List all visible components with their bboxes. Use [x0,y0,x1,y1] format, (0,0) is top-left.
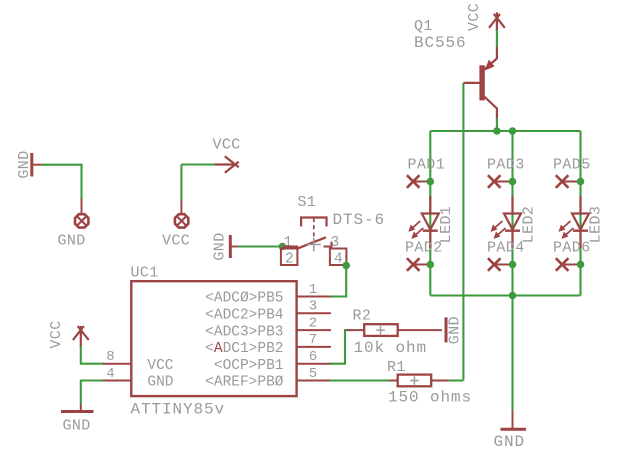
svg-text:2: 2 [285,252,294,268]
junction LED2 rail bottom [509,292,517,300]
wire VCC to emitter [496,30,498,48]
junction PAD5 [577,178,585,186]
svg-text:VCC: VCC [147,358,173,374]
IC left pin 4 (GND) [103,366,174,391]
wire R1 to base net [449,379,463,381]
junction collector at top bus [493,127,501,135]
svg-text:GND: GND [212,232,229,260]
wire [42,165,82,200]
wire LED2 rail [511,131,513,296]
ground flag at R2 [446,316,464,344]
wire pin 5 to R1 [330,379,391,381]
transistor Q1 BC556 [463,47,497,119]
svg-text:4: 4 [334,252,343,268]
svg-text:GND: GND [58,233,86,250]
pad GND (wirepad) [58,199,89,250]
junction PAD4 [509,261,517,269]
switch S1 DTS-6 [281,194,385,268]
svg-text:BC556: BC556 [414,34,467,52]
wire LED3 rail [579,131,581,296]
svg-text:<ADCØ>PB5: <ADCØ>PB5 [205,291,283,307]
svg-text:3: 3 [309,299,317,315]
svg-text:DTS-6: DTS-6 [333,211,386,229]
junction PAD6 [577,261,585,269]
ground flag top-left [16,150,43,178]
svg-text:PAD3: PAD3 [487,157,525,174]
diode LED1 [408,196,455,248]
wire pin 6 to R2 [330,330,349,364]
wire collector down [496,118,498,131]
svg-text:PAD2: PAD2 [405,240,443,257]
IC pin 3 PB4 [205,299,331,324]
pad PAD1 [407,157,445,188]
pad PAD6 [553,240,591,271]
svg-text:5: 5 [309,366,317,382]
pad PAD3 [487,157,525,188]
ground flag bottom [494,411,527,452]
supply flag VCC top-center [213,137,241,173]
svg-text:UC1: UC1 [131,265,159,282]
supply flag VCC left of IC [48,320,89,348]
svg-text:150 ohms: 150 ohms [388,389,472,407]
IC pin 7 PB2 [205,332,331,357]
IC pin 1 PB5 [205,282,331,307]
svg-text:LED3: LED3 [588,206,605,244]
wire [181,165,215,202]
svg-text:1: 1 [309,282,317,298]
wire S1 pin4 to IC pin 1 [330,265,347,296]
svg-text:<AREF>PBØ: <AREF>PBØ [205,375,284,391]
junction PAD1 [427,178,435,186]
pad PAD2 [405,240,443,271]
svg-text:VCC: VCC [466,3,483,31]
resistor R1 [387,359,472,407]
ground flag at S1 [212,232,240,260]
pad VCC (wirepad) [162,200,190,250]
svg-text:GND: GND [147,375,173,391]
wire LED1 rail [429,131,431,296]
svg-text:PAD6: PAD6 [553,240,591,257]
svg-text:GND: GND [494,433,526,451]
wire top bus [430,130,580,132]
supply flag VCC at Q1 [466,3,505,31]
svg-text:6: 6 [309,349,317,365]
svg-text:LED1: LED1 [438,206,455,244]
svg-text:<OCP>PB1: <OCP>PB1 [214,358,284,374]
wire base net vertical [462,83,464,381]
junction PAD3 [509,178,517,186]
junction at S1 pin 4 [342,262,350,270]
wire bottom bus [430,294,580,296]
svg-text:GND: GND [63,418,91,435]
svg-text:PAD1: PAD1 [408,157,446,174]
svg-text:8: 8 [106,349,114,365]
svg-text:VCC: VCC [162,233,190,250]
svg-text:2: 2 [309,315,317,331]
junction PAD2 [427,261,435,269]
svg-text:S1: S1 [298,194,317,211]
svg-text:ATTINY85v: ATTINY85v [131,401,226,419]
diode LED2 [491,196,538,248]
svg-text:GND: GND [447,316,464,344]
IC UC1 ATTINY85v [131,265,297,419]
pad PAD5 [553,157,591,188]
svg-text:10k ohm: 10k ohm [354,339,428,357]
junction LED2 rail top [509,127,517,135]
svg-text:Q1: Q1 [414,18,433,35]
IC left pin 8 (VCC) [103,349,174,374]
IC pin 5 PB0 [205,366,331,391]
svg-text:VCC: VCC [213,137,241,154]
transistor Q1 labels [414,18,467,52]
svg-text:VCC: VCC [48,320,65,348]
wire pin 4 to ground [81,381,104,406]
svg-text:PAD4: PAD4 [487,240,525,257]
svg-text:<ADC2>PB4: <ADC2>PB4 [205,308,283,324]
svg-text:7: 7 [309,332,317,348]
diode LED3 [559,196,605,248]
junction at S1 pin 1 [279,243,287,251]
IC pin 6 PB1 [214,349,331,374]
pad PAD4 [487,240,525,271]
svg-text:4: 4 [106,366,114,382]
wire VCC to pin 8 [81,346,104,364]
svg-text:<ADC1>PB2: <ADC1>PB2 [205,341,283,357]
resistor R2 [347,308,443,358]
svg-text:LED2: LED2 [521,206,538,244]
wire bottom bus to ground [511,296,513,412]
svg-text:<ADC3>PB3: <ADC3>PB3 [205,324,283,340]
ground flag below pin 4 [61,404,94,435]
wire [238,245,282,247]
IC pin 2 PB3 [205,315,331,340]
svg-text:PAD5: PAD5 [553,157,591,174]
svg-text:R2: R2 [353,308,372,325]
